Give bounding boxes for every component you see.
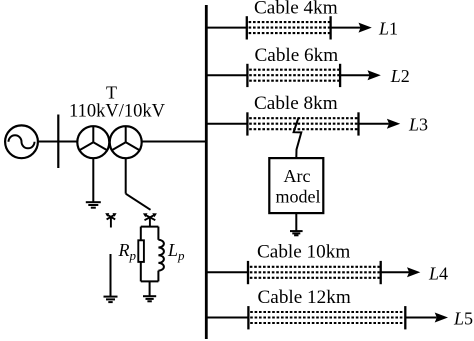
svg-text:L1: L1 [378,19,398,39]
svg-text:Rp: Rp [118,240,137,263]
svg-text:Cable 10km: Cable 10km [257,242,350,263]
svg-text:Lp: Lp [167,240,185,263]
svg-text:Cable 12km: Cable 12km [258,287,351,308]
svg-text:T: T [106,83,117,103]
svg-text:L2: L2 [390,66,410,86]
svg-text:model: model [276,187,321,207]
svg-text:Cable 4km: Cable 4km [254,0,338,19]
svg-text:110kV/10kV: 110kV/10kV [69,102,166,122]
svg-text:L4: L4 [428,263,448,283]
svg-text:L3: L3 [408,115,428,135]
svg-text:L5: L5 [453,309,473,329]
svg-text:Cable 8km: Cable 8km [254,93,338,114]
svg-text:Arc: Arc [284,166,311,186]
svg-text:Cable 6km: Cable 6km [255,45,339,66]
